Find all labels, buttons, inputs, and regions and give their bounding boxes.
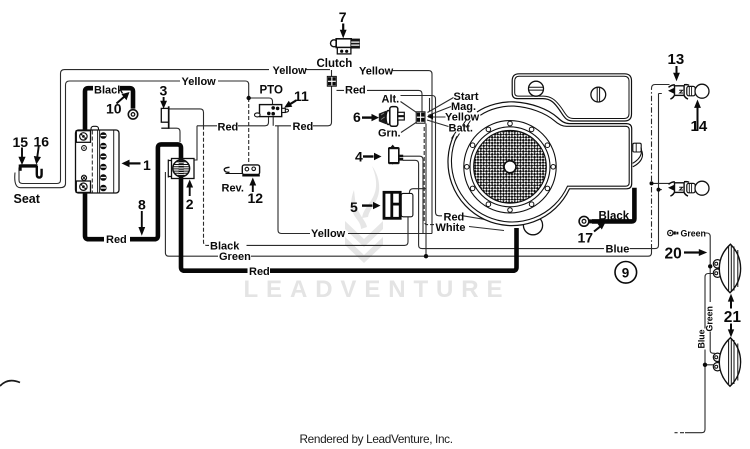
svg-text:8: 8 xyxy=(138,196,146,212)
svg-text:Yellow: Yellow xyxy=(311,228,346,240)
circled 9 xyxy=(615,262,637,284)
svg-text:14: 14 xyxy=(691,118,708,135)
wire radiating yellow xyxy=(428,116,446,118)
svg-text:Red: Red xyxy=(106,234,127,246)
THICK WIRES xyxy=(85,88,634,271)
wire alt to red label bracket xyxy=(401,96,443,216)
wire solenoid riser xyxy=(194,126,197,160)
svg-text:White: White xyxy=(436,222,466,234)
THIN WIRES xyxy=(15,70,715,433)
wire seat second yellow run xyxy=(15,81,249,188)
wire lamp20 to lamp21 green xyxy=(710,266,715,353)
clutch switch 7 xyxy=(331,24,360,54)
arrow 14 up xyxy=(694,100,701,131)
svg-text:Rendered by LeadVenture, Inc.: Rendered by LeadVenture, Inc. xyxy=(300,432,453,446)
wire red label to engine xyxy=(463,216,491,221)
battery 1 body xyxy=(76,126,120,193)
wire red from solenoid to switch 3 and PTO xyxy=(197,116,269,126)
svg-text:Blue: Blue xyxy=(606,243,630,255)
wire yellow drop to Rev switch xyxy=(248,98,250,164)
arrows 21 xyxy=(728,294,734,338)
svg-text:Yellow: Yellow xyxy=(182,76,217,88)
wire radiating mag xyxy=(428,107,451,116)
svg-text:Green: Green xyxy=(681,228,706,238)
wire lamp20 lower blue down xyxy=(685,274,714,433)
wire switch3 top to red line xyxy=(169,109,204,126)
battery terminal bolts xyxy=(80,133,87,191)
wire comp4 upper to yellow bus xyxy=(403,156,423,233)
PTO switch 11 xyxy=(254,101,296,117)
engine top plate xyxy=(512,74,631,121)
svg-text:4: 4 xyxy=(355,149,363,165)
svg-text:15: 15 xyxy=(13,134,29,150)
svg-text:Black: Black xyxy=(94,84,124,96)
svg-text:1: 1 xyxy=(143,157,151,173)
svg-text:Clutch: Clutch xyxy=(317,58,353,70)
wire green riser dash-dot xyxy=(651,89,653,250)
engine outline break marks xyxy=(452,119,471,141)
wire yellow bus right xyxy=(348,233,432,235)
wire dashed to White label xyxy=(424,127,434,225)
svg-text:16: 16 xyxy=(34,133,50,149)
svg-text:10: 10 xyxy=(106,100,122,116)
svg-text:Yellow: Yellow xyxy=(359,66,394,78)
lamp 20 xyxy=(713,244,740,293)
wire comp4 lower to blue run xyxy=(403,160,604,248)
svg-text:PTO: PTO xyxy=(260,85,283,97)
wire red 8 to solenoid xyxy=(130,144,248,270)
svg-text:9: 9 xyxy=(622,265,630,280)
bulb socket 13 upper xyxy=(668,84,709,99)
green connector icon xyxy=(668,230,679,235)
wire switch3 drop to black bus xyxy=(204,126,210,246)
wire block to green junction xyxy=(425,124,427,257)
wire seat to top yellow run xyxy=(19,70,330,184)
svg-text:Green: Green xyxy=(705,306,715,331)
arrow 13 down xyxy=(673,66,680,81)
diode 4 xyxy=(363,145,403,165)
wire junction PTO feed xyxy=(249,98,273,105)
svg-text:17: 17 xyxy=(578,229,594,245)
svg-text:Red: Red xyxy=(218,121,239,133)
wire lamp21 lower stub xyxy=(705,364,715,366)
svg-text:Red: Red xyxy=(293,121,314,133)
wire yellow top stub into connector xyxy=(331,70,333,76)
wire clutch yellow down to yellow bus xyxy=(393,71,433,234)
svg-text:Rev.: Rev. xyxy=(222,183,244,195)
svg-text:Green: Green xyxy=(219,251,251,263)
watermark flame logo xyxy=(345,166,383,263)
engine bottom bump xyxy=(523,216,542,235)
svg-text:21: 21 xyxy=(724,309,742,326)
svg-text:Alt.: Alt. xyxy=(382,94,400,106)
svg-text:Batt.: Batt. xyxy=(449,123,473,135)
svg-text:LEADVENTURE: LEADVENTURE xyxy=(244,276,511,303)
svg-text:2: 2 xyxy=(186,196,194,212)
svg-text:Seat: Seat xyxy=(14,192,41,206)
svg-text:Blue: Blue xyxy=(697,329,707,348)
wire green icon to lamp20 xyxy=(705,233,710,264)
solenoid 2 xyxy=(168,159,194,197)
svg-text:Grn.: Grn. xyxy=(378,128,401,140)
fuse block 5 xyxy=(362,192,413,218)
wire white label to engine xyxy=(469,227,504,231)
svg-text:Black: Black xyxy=(599,211,630,223)
wire radiating batt xyxy=(427,120,449,127)
wire PTO to clutch connector red xyxy=(275,87,332,126)
wire battery black top xyxy=(85,88,93,131)
svg-text:5: 5 xyxy=(350,199,358,215)
wire black bus xyxy=(247,217,409,245)
svg-text:Yellow: Yellow xyxy=(273,65,308,77)
svg-text:Red: Red xyxy=(345,85,366,97)
stray arc bottom-left xyxy=(0,381,20,386)
key switch 3 xyxy=(160,97,169,129)
wire black 17 to engine xyxy=(592,188,634,222)
clutch connector xyxy=(327,76,336,86)
wire radiating grn xyxy=(401,122,417,133)
wire bottom dashed tail xyxy=(675,432,685,434)
battery cells xyxy=(100,132,107,191)
reverse switch 12 xyxy=(224,165,260,192)
engine blower housing volute xyxy=(448,102,632,226)
wire radiating alt xyxy=(401,102,418,113)
wire thick red bus to engine xyxy=(270,228,517,271)
wire radiating start xyxy=(428,98,454,113)
ring terminal 10 xyxy=(117,92,138,119)
wire PTO drop to yellow bus xyxy=(278,126,310,234)
arrow 20 xyxy=(684,249,707,256)
wire clutch red to ignition block xyxy=(337,90,423,111)
wire green bus with solenoid branch xyxy=(165,85,669,257)
wire blue right to lamp sockets xyxy=(630,94,662,249)
svg-text:11: 11 xyxy=(294,88,309,104)
svg-text:20: 20 xyxy=(665,245,682,262)
svg-text:6: 6 xyxy=(353,109,361,125)
wire black to ring terminal 10 xyxy=(120,88,133,108)
wire comp5 top to block drop xyxy=(409,189,426,194)
wire battery red bottom (8) xyxy=(85,192,104,239)
bulb socket 13 lower xyxy=(668,181,709,196)
svg-text:3: 3 xyxy=(160,82,168,98)
ring terminal 17 xyxy=(579,216,605,231)
svg-text:7: 7 xyxy=(339,9,347,25)
arrow 8 down xyxy=(138,211,145,236)
arrow to battery (1) xyxy=(122,160,141,168)
ignition connector block xyxy=(416,112,433,123)
svg-text:13: 13 xyxy=(668,51,685,68)
wire block stub up xyxy=(429,98,431,112)
wire PTO pin stub xyxy=(272,115,274,126)
seat switch 15/16 xyxy=(18,147,41,178)
svg-text:Red: Red xyxy=(249,266,270,278)
lamp 21 xyxy=(713,338,740,387)
battery terminal boxes xyxy=(76,131,90,193)
engine side nub xyxy=(633,143,641,152)
ignition switch 6 xyxy=(362,107,404,127)
svg-text:12: 12 xyxy=(248,190,264,206)
battery internal lines xyxy=(92,131,113,193)
wire switch3 bottom to thick red xyxy=(169,128,180,142)
